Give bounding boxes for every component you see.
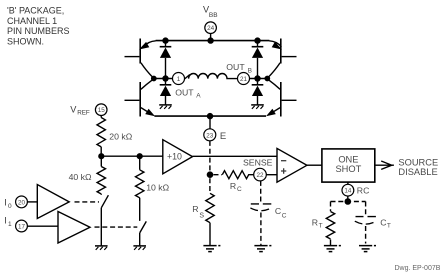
svg-text:ONE: ONE [338, 154, 358, 164]
svg-text:C: C [237, 186, 242, 193]
svg-text:+10: +10 [167, 152, 182, 162]
svg-text:A: A [196, 93, 201, 100]
svg-text:S: S [199, 212, 204, 219]
svg-text:C: C [275, 206, 281, 216]
svg-text:I: I [4, 215, 7, 225]
svg-text:1: 1 [177, 76, 181, 83]
svg-text:CHANNEL 1: CHANNEL 1 [7, 16, 57, 26]
svg-text:C: C [380, 217, 386, 227]
svg-text:E: E [220, 131, 226, 142]
svg-text:0: 0 [8, 203, 12, 210]
svg-text:BB: BB [209, 12, 218, 19]
svg-text:SOURCE: SOURCE [398, 158, 438, 168]
svg-text:22: 22 [256, 172, 264, 179]
svg-text:OUT: OUT [175, 87, 194, 97]
svg-text:PIN NUMBERS: PIN NUMBERS [7, 26, 70, 36]
svg-text:REF: REF [77, 109, 90, 116]
svg-text:RC: RC [357, 185, 370, 195]
svg-text:SENSE: SENSE [243, 157, 273, 167]
svg-text:21: 21 [240, 76, 248, 83]
svg-text:40 kΩ: 40 kΩ [69, 172, 92, 182]
svg-text:C: C [282, 213, 287, 220]
svg-text:B: B [248, 68, 252, 75]
svg-text:1: 1 [8, 221, 12, 228]
svg-text:T: T [319, 223, 323, 230]
svg-text:24: 24 [207, 25, 215, 32]
svg-text:14: 14 [344, 188, 352, 195]
svg-text:R: R [192, 204, 198, 214]
svg-text:20 kΩ: 20 kΩ [109, 132, 132, 142]
svg-text:10 kΩ: 10 kΩ [146, 183, 169, 193]
svg-text:R: R [312, 217, 318, 227]
svg-text:R: R [230, 181, 236, 191]
svg-text:SHOWN.: SHOWN. [7, 36, 44, 46]
svg-text:Dwg. EP-007B: Dwg. EP-007B [395, 265, 441, 272]
svg-text:OUT: OUT [226, 62, 245, 72]
svg-text:I: I [4, 198, 7, 208]
svg-text:T: T [387, 223, 391, 230]
svg-text:17: 17 [18, 224, 26, 231]
svg-text:15: 15 [98, 107, 106, 114]
svg-text:'B' PACKAGE,: 'B' PACKAGE, [7, 6, 64, 16]
svg-text:23: 23 [206, 132, 214, 139]
svg-text:20: 20 [18, 199, 26, 206]
svg-text:SHOT: SHOT [335, 164, 361, 174]
svg-text:DISABLE: DISABLE [398, 167, 437, 177]
